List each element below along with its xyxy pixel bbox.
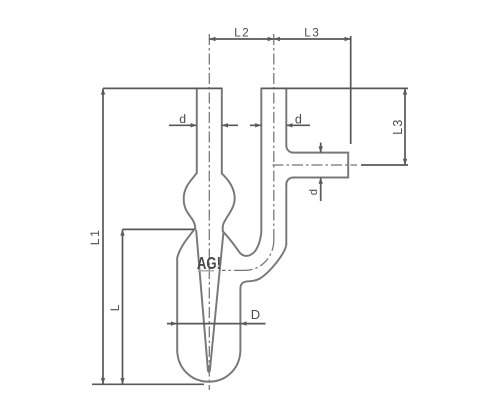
svg-text:d: d <box>295 113 302 127</box>
body rounded bottom <box>177 350 240 382</box>
arrow d right tube right <box>286 123 292 127</box>
arrow d right tube left <box>255 123 261 127</box>
svg-text:L: L <box>108 304 122 311</box>
logo small text <box>198 270 214 271</box>
right tube right wall upper <box>285 88 287 145</box>
dimension line L2 L3 top <box>209 38 350 40</box>
right tube right wall lower <box>285 185 287 245</box>
body left wall from neck <box>177 228 195 349</box>
arrow L3 right bottom <box>403 159 407 165</box>
inner cone left wall <box>196 231 208 372</box>
centerline side arm <box>273 164 358 166</box>
inner cone right wall <box>210 233 224 371</box>
centerline right tube <box>273 34 275 240</box>
left inlet tube left wall <box>196 88 198 172</box>
arrow L3 right top <box>403 88 407 94</box>
bulb right wall <box>222 174 235 232</box>
dimension line d side arm <box>320 143 322 202</box>
extension line L3 right bottom <box>361 164 408 166</box>
side arm top wall <box>293 152 348 154</box>
arrow L1 top <box>101 88 105 94</box>
arrow D right <box>240 321 246 325</box>
extension line side arm end top <box>350 36 352 144</box>
arrow d side arm top <box>319 146 323 152</box>
side arm end wall <box>347 153 349 178</box>
arrow L1 bottom <box>101 378 105 384</box>
svg-text:L2: L2 <box>234 27 250 39</box>
svg-text:D: D <box>251 307 260 322</box>
extension line top mouth right tube to L3 right <box>261 87 408 89</box>
arrow L top <box>120 229 124 235</box>
arrow L2 right <box>268 37 274 41</box>
extension line top mouth left tube / L1 <box>103 87 222 89</box>
dimension line d right tube <box>250 124 310 126</box>
side arm bottom wall <box>293 177 348 179</box>
inner cone tip <box>208 366 211 373</box>
svg-text:L1: L1 <box>88 228 102 245</box>
extension line for L at neck <box>123 228 195 230</box>
dimension line L <box>122 229 124 384</box>
side arm bottom fillet <box>286 178 293 185</box>
centerline passage into body <box>222 269 245 271</box>
arrow L3 right <box>345 37 351 41</box>
bulb left wall <box>184 173 197 228</box>
arrow L3 left <box>274 37 280 41</box>
svg-text:L3: L3 <box>391 118 405 134</box>
dimension line D body <box>167 323 266 325</box>
arrow L bottom <box>120 378 124 384</box>
left inlet tube right wall <box>221 88 223 173</box>
arrow d side arm bottom <box>319 178 323 184</box>
extension line bottom <box>92 383 204 385</box>
right tube left wall <box>260 88 262 230</box>
arrow D left <box>171 321 177 325</box>
svg-text:d: d <box>308 189 320 195</box>
arrow L2 left <box>209 37 215 41</box>
side arm top fillet <box>286 146 293 153</box>
dimension line d left tube <box>169 124 238 126</box>
svg-text:d: d <box>179 112 186 126</box>
arrow d left tube left <box>191 123 197 127</box>
body right wall <box>239 289 241 350</box>
centerline left tube <box>208 34 210 390</box>
svg-text:L3: L3 <box>304 27 320 39</box>
U-bend outer wall to body <box>240 244 286 289</box>
arrow d left tube right <box>222 123 228 127</box>
dimension line L1 <box>102 88 104 384</box>
dimension line L3 right <box>404 88 406 165</box>
passage upper wall (neck to right tube) <box>223 231 262 256</box>
centerline U-bend arc <box>245 240 274 270</box>
